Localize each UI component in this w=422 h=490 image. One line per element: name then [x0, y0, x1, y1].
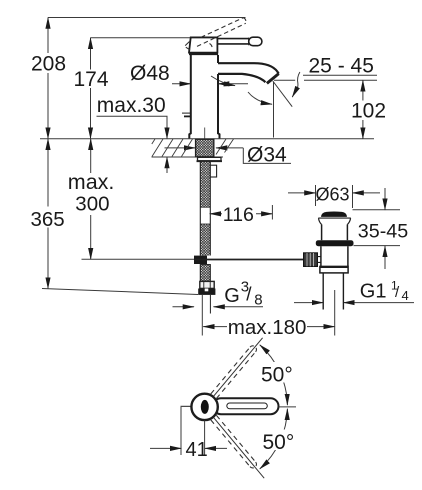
- svg-text:G1: G1: [360, 281, 387, 303]
- svg-text:4: 4: [402, 288, 409, 303]
- svg-text:35-45: 35-45: [358, 221, 408, 243]
- svg-text:300: 300: [75, 192, 109, 215]
- svg-text:208: 208: [31, 53, 66, 76]
- svg-text:max.: max.: [68, 170, 115, 194]
- svg-text:max.180: max.180: [228, 316, 307, 339]
- svg-text:max.30: max.30: [97, 94, 166, 117]
- svg-text:41: 41: [186, 439, 208, 461]
- svg-text:102: 102: [351, 100, 386, 123]
- svg-text:116: 116: [223, 204, 254, 226]
- svg-text:50°: 50°: [263, 431, 295, 454]
- svg-text:174: 174: [74, 68, 109, 91]
- svg-text:Ø63: Ø63: [316, 184, 350, 204]
- svg-text:8: 8: [254, 292, 262, 309]
- svg-text:/: /: [246, 285, 252, 306]
- svg-text:G: G: [224, 285, 240, 307]
- svg-text:25 - 45: 25 - 45: [309, 55, 374, 78]
- svg-text:Ø34: Ø34: [247, 144, 287, 167]
- svg-text:Ø48: Ø48: [130, 62, 170, 85]
- svg-text:365: 365: [31, 208, 65, 231]
- svg-text:50°: 50°: [261, 364, 293, 387]
